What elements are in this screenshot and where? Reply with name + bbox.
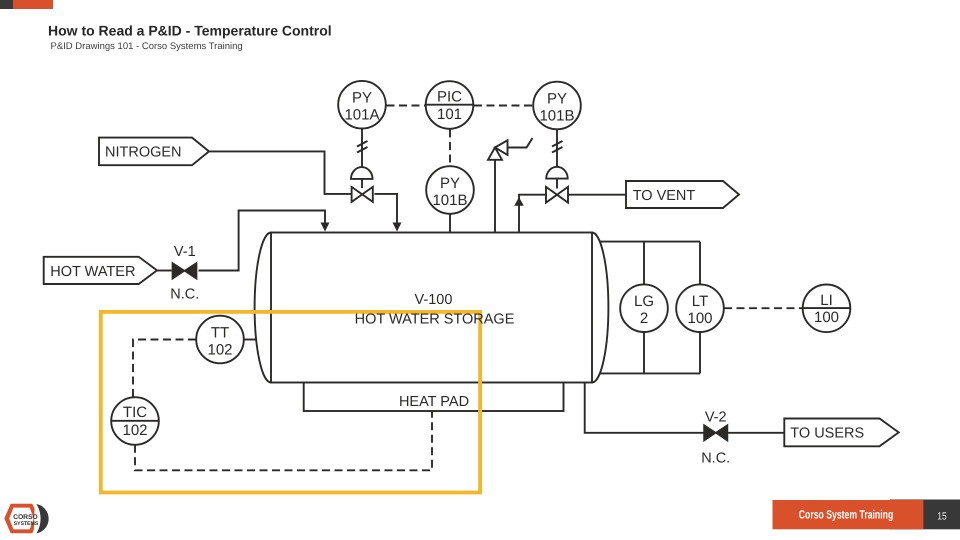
control valve CV1 stem (361, 179, 363, 188)
signal ticks PY101A (357, 141, 368, 153)
signal dash LT100 to LI100 (724, 307, 803, 309)
svg-text:TT: TT (211, 324, 229, 341)
svg-text:Corso System Training: Corso System Training (799, 507, 894, 521)
signal PY101A to valve (361, 129, 363, 168)
svg-text:V-1: V-1 (174, 244, 196, 260)
wire relief valve riser (494, 160, 496, 233)
heat pad box (304, 383, 564, 412)
relief valve PSV up triangle (488, 148, 502, 160)
svg-text:How to Read a P&ID - Temperatu: How to Read a P&ID - Temperature Control (48, 23, 332, 39)
svg-text:P&ID Drawings 101 - Corso Syst: P&ID Drawings 101 - Corso Systems Traini… (51, 41, 243, 52)
svg-text:NITROGEN: NITROGEN (105, 145, 182, 161)
footer orange training bar (773, 500, 924, 529)
svg-text:102: 102 (207, 341, 232, 358)
arrow into vessel (hot water) (321, 223, 330, 232)
svg-text:CORSO: CORSO (13, 514, 37, 521)
svg-text:LG: LG (634, 293, 654, 310)
wire vessel outlet to V-2 (585, 383, 704, 433)
control valve CV2 stem (556, 179, 558, 189)
svg-text:PY: PY (547, 90, 567, 107)
svg-text:HOT WATER STORAGE: HOT WATER STORAGE (355, 311, 515, 327)
footer dark page box (890, 500, 960, 530)
flag NITROGEN (99, 138, 209, 166)
svg-text:LI: LI (820, 292, 833, 309)
arrow into vessel (nitrogen) (393, 223, 402, 232)
highlight yellow box (101, 312, 480, 493)
svg-text:15: 15 (937, 510, 947, 522)
signal dash TIC102 to heat pad (135, 412, 432, 471)
svg-text:PY: PY (440, 175, 460, 192)
control valve CV1 actuator dome (351, 167, 373, 179)
svg-text:101B: 101B (539, 107, 574, 124)
svg-text:SYSTEMS: SYSTEMS (14, 521, 39, 527)
svg-text:TIC: TIC (123, 404, 147, 421)
vessel V-100 shell (271, 233, 592, 383)
relief valve PSV lever (508, 138, 533, 148)
wire PY101B mid to vessel (449, 214, 451, 233)
instrument LT 100 (676, 284, 724, 332)
svg-text:102: 102 (122, 422, 147, 439)
footer logo corso systems (4, 502, 48, 537)
svg-text:PY: PY (352, 90, 372, 107)
wire vent riser (519, 195, 545, 233)
svg-text:N.C.: N.C. (701, 451, 730, 467)
wire valve to vessel top (375, 194, 398, 225)
svg-text:HOT WATER: HOT WATER (50, 264, 135, 280)
instrument PY 101A (338, 81, 386, 129)
svg-text:LT: LT (692, 293, 708, 310)
control valve CV2 body (546, 187, 568, 203)
instrument PIC 101 (426, 81, 474, 129)
header orange bar (13, 0, 53, 9)
signal dash PIC101 down to PY101B mid (449, 130, 451, 167)
svg-text:101: 101 (437, 106, 462, 123)
svg-text:N.C.: N.C. (170, 287, 199, 303)
instrument PY 101B top (533, 82, 581, 130)
wire nitrogen to valve (209, 151, 351, 194)
signal dash PY101A to PIC101 (387, 105, 426, 107)
wire vent valve to flag (569, 194, 627, 196)
wire V-1 to vessel top (199, 211, 326, 271)
signal dash TT102 to TIC102 (133, 340, 196, 398)
wire TT102 to vessel (244, 339, 258, 341)
svg-text:101B: 101B (432, 192, 467, 209)
valve V-2 body (704, 425, 728, 441)
valve V-1 body (172, 263, 196, 279)
wire hot water flag to V-1 (157, 270, 172, 272)
svg-text:PIC: PIC (437, 89, 462, 106)
level bridle lines (597, 242, 700, 374)
flag TO VENT (626, 181, 739, 208)
svg-text:100: 100 (687, 310, 712, 327)
instrument TIC 102 (111, 397, 159, 445)
flag TO USERS (784, 419, 898, 447)
instrument LG 2 (620, 284, 668, 332)
svg-text:100: 100 (814, 309, 839, 326)
svg-text:TO USERS: TO USERS (790, 426, 864, 442)
svg-text:TO VENT: TO VENT (633, 188, 696, 204)
svg-text:2: 2 (640, 310, 648, 327)
svg-text:101A: 101A (344, 107, 379, 124)
instrument PY 101B mid (426, 166, 474, 214)
wire V-2 to users flag (728, 432, 785, 434)
header dark bar (0, 0, 13, 9)
svg-text:V-100: V-100 (415, 292, 453, 308)
control valve CV2 actuator dome (546, 167, 568, 179)
instrument TT 102 (196, 316, 244, 364)
signal PY101B right to valve (556, 129, 558, 167)
svg-text:HEAT PAD: HEAT PAD (399, 394, 469, 410)
signal ticks PY101B (552, 141, 563, 153)
vessel V-100 right head (576, 233, 609, 383)
svg-text:V-2: V-2 (705, 410, 727, 426)
control valve CV1 body (352, 187, 373, 202)
relief valve PSV side triangle (495, 140, 508, 155)
instrument LI 100 (803, 285, 851, 333)
flag HOT WATER (44, 257, 157, 284)
arrow up vent (514, 197, 524, 206)
vessel V-100 left head (255, 233, 288, 383)
signal dash PIC101 to PY101B (474, 105, 533, 107)
